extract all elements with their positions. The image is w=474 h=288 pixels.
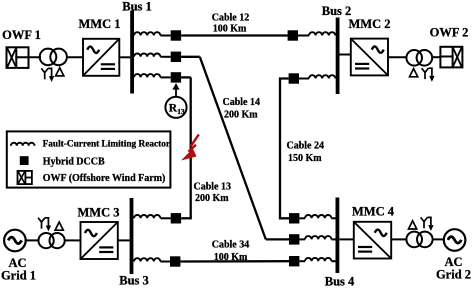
wire MMC2 to T2 — [388, 56, 407, 58]
wire reactor to DCCB — [160, 217, 170, 219]
svg-text:Bus 4: Bus 4 — [325, 275, 355, 288]
svg-text:Fault-Current Limiting Reactor: Fault-Current Limiting Reactor — [43, 140, 170, 150]
fault lightning bolt (red) — [183, 134, 199, 159]
svg-text:MMC 2: MMC 2 — [349, 17, 391, 31]
cable 13 vertical wire — [190, 77, 192, 218]
svg-text:200 Km: 200 Km — [195, 193, 229, 204]
svg-text:100 Km: 100 Km — [213, 24, 247, 35]
svg-text:Bus 2: Bus 2 — [322, 4, 352, 18]
wire MMC4 to T4 — [391, 238, 406, 240]
legend OWF symbol — [18, 171, 32, 184]
hybrid DCCB B41 — [289, 234, 299, 244]
converter MMC 1 — [83, 39, 119, 76]
wire reactor to bus4 — [331, 260, 335, 262]
svg-text:MMC 3: MMC 3 — [78, 206, 120, 220]
wire MMC3 to bus3 — [118, 239, 130, 241]
hybrid DCCB B13 — [171, 72, 181, 82]
svg-text:100 Km: 100 Km — [214, 252, 248, 263]
reactor L43 — [305, 258, 331, 261]
wire reactor to DCCB — [160, 261, 170, 263]
branch 3-1: reactor L31 — [134, 215, 160, 218]
bus 1 bar — [130, 11, 134, 94]
hybrid DCCB B24 — [289, 73, 299, 83]
branch 4-2: hybrid DCCB B42 — [289, 213, 299, 223]
transformer T3 — [39, 233, 65, 248]
wire DCCB to cable 13 — [181, 76, 191, 78]
svg-text:MMC 1: MMC 1 — [79, 17, 121, 31]
svg-text:OWF 1: OWF 1 — [2, 28, 41, 42]
svg-text:Grid 1: Grid 1 — [1, 269, 36, 283]
wire reactor to DCCB — [160, 35, 170, 37]
wire T3 to MMC3 — [65, 239, 81, 241]
hybrid DCCB B34 — [170, 256, 180, 266]
svg-text:Cable 34: Cable 34 — [212, 240, 250, 251]
hybrid DCCB B14 — [171, 52, 181, 62]
hybrid DCCB B31 — [171, 213, 181, 223]
bus 3 bar — [130, 198, 134, 274]
reactor L42 — [305, 215, 331, 218]
R13 measurement arrow — [172, 83, 179, 97]
wire T1 to MMC1 — [67, 56, 84, 58]
svg-text:150 Km: 150 Km — [288, 153, 322, 164]
svg-text:Cable 13: Cable 13 — [194, 182, 232, 193]
branch 1-2: reactor L12 — [134, 32, 160, 35]
converter MMC 3 — [81, 222, 118, 259]
branch 1-4: reactor L14 — [134, 53, 160, 56]
cable 14 diagonal wire — [200, 57, 266, 240]
wire reactor to DCCB — [160, 76, 170, 78]
converter MMC 2 — [351, 39, 388, 76]
svg-text:OWF (Offshore Wind Farm): OWF (Offshore Wind Farm) — [43, 173, 166, 184]
T3 grounded-wye symbol — [38, 218, 50, 230]
AC Grid 2 source — [444, 229, 466, 251]
branch 3-4: reactor L34 — [134, 258, 160, 261]
OWF 1 (offshore wind farm) symbol — [7, 47, 29, 68]
wire MMC1 to Bus1 — [119, 56, 130, 58]
wire reactor to DCCB — [299, 78, 309, 80]
svg-text:Grid 2: Grid 2 — [436, 268, 471, 282]
T4 grounded-wye symbol — [421, 217, 433, 229]
svg-text:Bus 1: Bus 1 — [122, 0, 152, 13]
wire DCCB to cable 13 — [181, 217, 192, 219]
hybrid DCCB B21 — [288, 30, 298, 40]
T1 grounded-wye symbol — [41, 68, 53, 80]
wire bus2 to MMC2 — [340, 54, 351, 56]
bus 2 bar — [336, 18, 340, 95]
cable 12 wire — [181, 34, 288, 36]
wire DCCB to reactor — [299, 238, 305, 240]
wire OWF1 to T1 — [15, 56, 41, 58]
T2 delta symbol — [410, 69, 418, 77]
OWF 2 (offshore wind farm) symbol — [440, 47, 462, 68]
converter MMC 4 — [354, 222, 391, 259]
wire reactor to bus4 — [331, 238, 335, 240]
wire reactor to bus4 — [331, 217, 335, 219]
svg-text:OWF 2: OWF 2 — [430, 26, 469, 40]
branch 4-3: hybrid DCCB B43 — [289, 256, 299, 266]
cable 34 wire — [180, 260, 289, 263]
T2 grounded-wye symbol — [422, 68, 434, 80]
wire T2 to OWF2 — [432, 56, 440, 58]
AC Grid 1 source — [4, 230, 26, 252]
svg-text:Hybrid DCCB: Hybrid DCCB — [43, 156, 105, 167]
T4 delta symbol — [409, 221, 417, 229]
svg-text:Cable 24: Cable 24 — [287, 141, 325, 152]
transformer T4 — [406, 232, 432, 248]
R13 circle — [165, 97, 186, 118]
wire reactor to DCCB — [160, 56, 170, 58]
svg-text:MMC 4: MMC 4 — [352, 205, 395, 219]
wire DCCB to reactor — [299, 260, 305, 262]
legend DCCB symbol — [20, 156, 29, 165]
wire DCCB to reactor — [299, 217, 305, 219]
transformer T2 — [406, 50, 432, 66]
bus 4 bar — [336, 198, 340, 274]
reactor L24 — [309, 75, 335, 78]
svg-text:Bus 3: Bus 3 — [119, 274, 149, 288]
T3 delta symbol — [55, 222, 63, 230]
legend reactor symbol — [11, 143, 35, 146]
reactor L21 — [309, 32, 335, 35]
wire DCCB to reactor L21 — [298, 35, 309, 37]
branch 4-1: wire cable14 to DCCB — [266, 238, 289, 240]
wire bus4 to MMC4 — [339, 238, 354, 240]
transformer T1 — [40, 49, 67, 66]
wire ACgrid1 to T3 — [25, 239, 39, 241]
svg-text:200 Km: 200 Km — [224, 110, 258, 121]
cable 24 wire (left then down) — [280, 79, 289, 219]
reactor L41 — [305, 236, 331, 239]
wire T4 to ACgrid2 — [433, 238, 445, 240]
svg-text:Cable 14: Cable 14 — [223, 97, 261, 108]
T1 delta symbol — [56, 68, 64, 76]
hybrid DCCB B12 — [171, 30, 181, 40]
svg-text:Cable 12: Cable 12 — [212, 13, 250, 24]
legend box — [7, 131, 171, 187]
branch 1-3: reactor L13 — [134, 74, 160, 77]
wire DCCB to cable 14 — [181, 56, 200, 58]
